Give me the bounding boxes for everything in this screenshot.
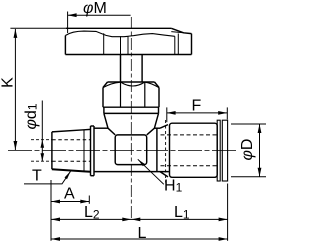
svg-text:F: F [192,98,202,115]
svg-text:K: K [0,77,17,88]
svg-text:φD: φD [239,139,256,161]
svg-text:L: L [138,225,147,242]
svg-text:L1: L1 [174,204,190,222]
svg-text:A: A [64,186,75,203]
svg-text:φM: φM [83,0,107,17]
svg-text:L2: L2 [84,204,100,222]
svg-text:φd1: φd1 [23,103,40,129]
svg-text:T: T [32,167,42,184]
svg-text:H1: H1 [164,178,183,195]
